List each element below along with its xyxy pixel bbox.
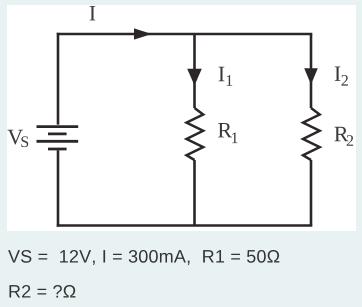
given values text line 1 — [8, 250, 279, 265]
wire middle vertical lower — [193, 160, 196, 226]
wire left vertical lower — [57, 151, 60, 227]
wire bottom horizontal — [57, 224, 313, 227]
wire top horizontal — [57, 33, 313, 36]
label R2 — [334, 127, 353, 146]
wire right vertical lower — [310, 160, 313, 226]
wire middle vertical upper — [193, 34, 196, 108]
wire right vertical upper — [310, 34, 313, 108]
label I1 — [219, 67, 233, 86]
arrow current I1 — [187, 69, 202, 86]
arrow current I2 — [304, 68, 318, 84]
resistor R2 — [303, 108, 320, 160]
arrow current I on top wire — [134, 28, 152, 39]
label VS — [8, 130, 29, 147]
given values text line 2 — [9, 285, 75, 298]
resistor R1 — [187, 108, 204, 160]
label R1 — [218, 123, 238, 143]
battery VS — [37, 127, 79, 149]
wire left vertical upper — [57, 33, 60, 125]
label I2 — [335, 66, 348, 85]
label I (top current) — [90, 6, 96, 20]
